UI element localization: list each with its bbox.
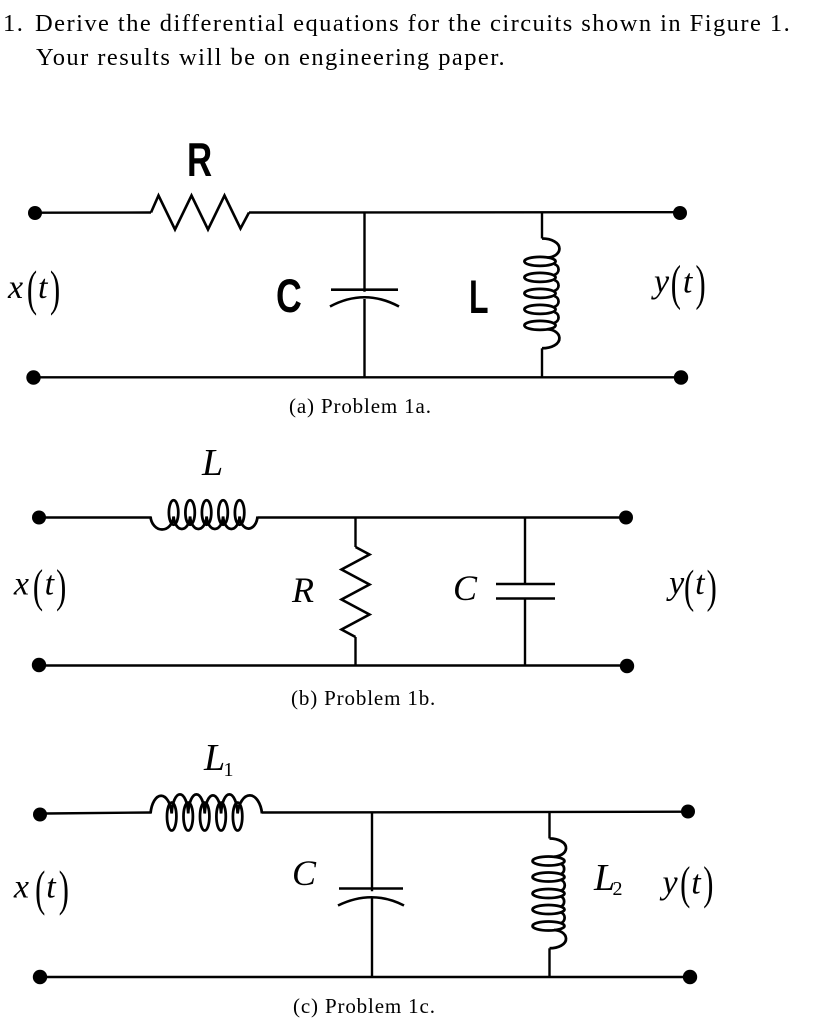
terminal dot: x(t) top-left (b) <box>32 511 46 525</box>
svg-text:C: C <box>276 269 302 322</box>
capacitor C (c) <box>338 889 404 906</box>
wire: top-left to resistor (a) <box>41 211 151 214</box>
svg-text:(: ( <box>27 261 37 318</box>
wire: inductor to top-right terminal (c) <box>262 811 688 814</box>
svg-text:(: ( <box>684 561 694 613</box>
svg-text:t: t <box>46 869 57 906</box>
terminal dot: y(t) bottom-right (a) <box>674 370 688 384</box>
svg-text:): ) <box>707 561 717 613</box>
svg-text:x: x <box>7 269 23 306</box>
svg-text:(b) Problem 1b.: (b) Problem 1b. <box>291 686 436 710</box>
svg-text:2: 2 <box>613 878 623 900</box>
inductor L coil (b) <box>151 500 258 529</box>
svg-text:(: ( <box>33 560 43 612</box>
wire: capacitor branch upper segment (b) <box>524 518 526 584</box>
svg-text:(: ( <box>671 255 681 312</box>
terminal dot: x(t) bottom-left (c) <box>33 970 47 984</box>
capacitor C (a) <box>330 290 399 307</box>
svg-text:(: ( <box>680 857 690 909</box>
svg-text:R: R <box>187 134 212 186</box>
svg-text:(a) Problem 1a.: (a) Problem 1a. <box>289 394 432 418</box>
wire: capacitor branch upper segment (a) <box>363 213 365 292</box>
wire: inductor L2 branch lower segment (c) <box>548 948 550 977</box>
terminal dot: y(t) top-right (b) <box>619 511 633 525</box>
inductor L coil (a) <box>524 239 559 349</box>
svg-text:t: t <box>45 566 56 603</box>
svg-text:): ) <box>703 857 713 909</box>
svg-text:1: 1 <box>224 759 234 781</box>
svg-text:x: x <box>13 566 29 603</box>
inductor L1 coil (c) <box>151 794 263 830</box>
svg-text:y: y <box>660 865 679 902</box>
wire: bottom rail (b) <box>46 664 627 666</box>
wire: bottom rail (c) <box>46 976 690 978</box>
wire: capacitor branch lower segment (b) <box>524 599 526 666</box>
svg-text:t: t <box>695 565 706 602</box>
inductor L2 coil (c) <box>533 839 567 949</box>
wire: top-left to inductor (c) <box>46 813 151 814</box>
resistor R (a) <box>151 196 249 230</box>
svg-text:C: C <box>292 853 317 893</box>
svg-text:x: x <box>13 869 29 906</box>
wire: inductor L2 branch upper segment (c) <box>548 813 550 839</box>
terminal dot: x(t) bottom-left (a) <box>26 370 40 384</box>
terminal dot: y(t) bottom-right (b) <box>620 659 634 673</box>
wire: capacitor branch lower segment (c) <box>371 898 373 977</box>
wire: capacitor branch upper segment (c) <box>371 813 373 892</box>
svg-text:t: t <box>38 269 49 306</box>
svg-text:t: t <box>683 264 694 301</box>
svg-text:(c) Problem 1c.: (c) Problem 1c. <box>293 994 436 1018</box>
capacitor C (b) <box>496 584 555 599</box>
wire: inductor branch lower segment (a) <box>541 348 543 377</box>
terminal dot: y(t) top-right (c) <box>681 805 695 819</box>
wire: resistor branch lower segment (b) <box>354 637 356 666</box>
svg-text:): ) <box>696 255 706 312</box>
problem statement text <box>3 7 825 74</box>
svg-text:(: ( <box>35 860 45 917</box>
wire: bottom rail (a) <box>40 376 681 378</box>
terminal dot: x(t) bottom-left (b) <box>32 658 46 672</box>
terminal dot: y(t) bottom-right (c) <box>683 970 697 984</box>
svg-text:y: y <box>666 565 685 602</box>
svg-text:): ) <box>56 560 66 612</box>
svg-text:R: R <box>291 570 314 610</box>
svg-text:L: L <box>203 737 225 779</box>
wire: inductor to top-right terminal (b) <box>258 516 627 518</box>
terminal dot: x(t) top-left (c) <box>33 808 47 822</box>
svg-text:t: t <box>691 865 702 902</box>
wire: capacitor branch lower segment (a) <box>363 299 365 377</box>
wire: top-left to inductor (b) <box>45 516 151 518</box>
svg-text:y: y <box>651 264 670 301</box>
wire: resistor to top-right terminal (a) <box>249 211 680 214</box>
wire: resistor branch upper segment (b) <box>354 518 356 548</box>
svg-text:L: L <box>201 442 223 484</box>
svg-text:L: L <box>469 271 489 324</box>
resistor R (b) <box>342 547 370 637</box>
svg-text:): ) <box>50 261 60 318</box>
terminal dot: y(t) top-right (a) <box>673 206 687 220</box>
terminal dot: x(t) top-left (a) <box>28 206 42 220</box>
wire: inductor branch upper segment (a) <box>541 213 543 239</box>
svg-text:): ) <box>59 860 69 917</box>
svg-text:C: C <box>453 568 478 608</box>
